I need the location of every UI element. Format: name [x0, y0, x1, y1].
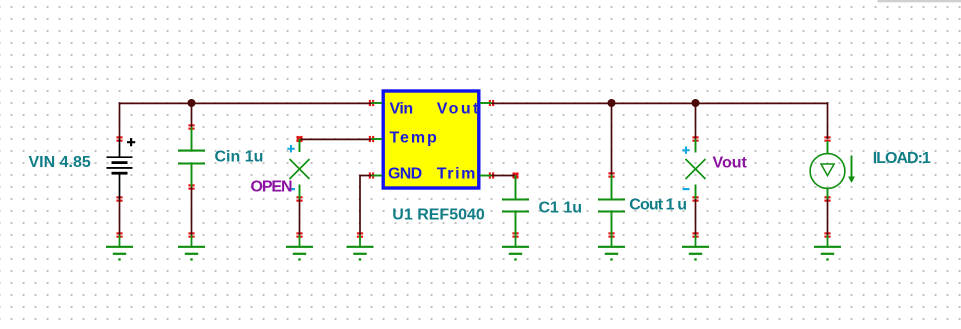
ground (OPEN probe)	[286, 235, 313, 261]
svg-text:VIN 4.85: VIN 4.85	[29, 154, 91, 171]
capacitor Cout	[598, 175, 625, 235]
ground (battery)	[106, 235, 133, 261]
pin Trim stub	[480, 175, 492, 177]
wire: U1 GND to ground	[360, 176, 372, 236]
svg-text:C1 1u: C1 1u	[539, 200, 583, 217]
label C1 1u	[539, 200, 583, 217]
ground (Vout probe)	[682, 235, 709, 261]
pin name Trim	[437, 165, 477, 182]
label OPEN	[251, 179, 292, 196]
pin Vout stub	[480, 102, 492, 104]
wire: ILOAD bottom to ground	[827, 199, 829, 235]
wire: Cout top drop	[611, 103, 613, 175]
plus mark Vout probe	[682, 147, 689, 154]
svg-text:OPEN: OPEN	[251, 179, 292, 196]
wire: ILOAD top drop	[827, 102, 829, 139]
svg-text:Temp: Temp	[390, 129, 439, 146]
wire: battery top drop	[119, 102, 121, 139]
pin Temp stub	[372, 138, 383, 140]
current source ILOAD	[810, 141, 855, 199]
svg-text:Cout 1 u: Cout 1 u	[629, 197, 686, 214]
svg-text:Cin 1u: Cin 1u	[215, 149, 264, 166]
pin name Vout	[437, 100, 481, 117]
pin name Vin	[390, 100, 413, 117]
pin name GND	[388, 165, 422, 182]
label Cin 1u	[215, 149, 264, 166]
svg-text:Vout: Vout	[713, 155, 748, 172]
wire: top rail right (U1 Vout to ILOAD)	[492, 102, 829, 104]
plus mark OPEN	[287, 145, 294, 152]
label ILOAD:1	[873, 150, 931, 167]
ground (C1)	[502, 235, 529, 261]
pin Vin stub	[372, 102, 383, 104]
voltage probe Vout	[686, 139, 706, 199]
wire: Vout probe top drop	[695, 103, 697, 139]
minus mark OPEN	[288, 188, 295, 190]
wire: OPEN probe bottom to ground	[299, 199, 301, 235]
wire: battery bottom to ground	[119, 199, 121, 235]
label VIN 4.85	[29, 154, 91, 171]
battery V1 VIN	[107, 138, 136, 199]
ground (Cout)	[598, 235, 625, 261]
pin name Temp	[390, 129, 439, 146]
label U1 REF5040	[392, 207, 485, 224]
window chrome fragment top-right	[878, 0, 961, 2]
junction node at Cin	[188, 99, 196, 107]
wire: Cin top drop	[191, 103, 193, 127]
minus mark Vout probe	[683, 188, 690, 190]
capacitor C1	[502, 176, 529, 236]
label Vout (probe)	[713, 155, 748, 172]
pin GND stub	[372, 175, 383, 177]
voltage probe OPEN	[290, 139, 310, 199]
capacitor Cin	[178, 127, 205, 187]
ground (Cin)	[178, 235, 205, 261]
wire: Vout probe bottom to ground	[695, 199, 697, 235]
wire: OPEN probe to U1 Temp	[300, 138, 372, 140]
junction node at Vout probe	[692, 99, 700, 107]
svg-text:ILOAD:1: ILOAD:1	[873, 150, 931, 167]
wire: U1 Trim to C1	[492, 175, 516, 177]
ground (U1 GND)	[347, 235, 374, 261]
label Cout 1u	[629, 197, 686, 214]
svg-text:Vout: Vout	[437, 100, 481, 117]
ground (ILOAD)	[814, 235, 841, 261]
pin connect marks	[116, 100, 830, 238]
svg-text:Vin: Vin	[390, 100, 413, 117]
wire: Cin bottom to ground	[191, 187, 193, 235]
svg-text:GND: GND	[388, 165, 422, 182]
svg-text:U1 REF5040: U1 REF5040	[392, 207, 485, 224]
IC U1 REF5040 body	[382, 89, 481, 189]
svg-text:Trim: Trim	[437, 165, 477, 182]
wire: top rail left (battery to U1 Vin)	[119, 102, 372, 104]
junction node at Cout	[608, 99, 616, 107]
